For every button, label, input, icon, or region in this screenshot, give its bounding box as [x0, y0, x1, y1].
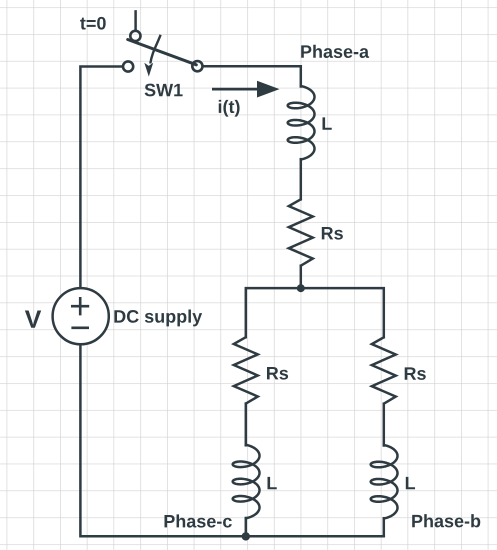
wire right branch resistor to coil	[383, 404, 386, 446]
wire switch to Phase-a corner	[203, 66, 301, 86]
switch SW1 right terminal circle	[192, 61, 202, 71]
wire top bus between branches	[246, 288, 384, 337]
wire left branch resistor to coil	[245, 404, 248, 446]
switch SW1 left terminal circle	[123, 61, 133, 71]
label L (phase-c)	[268, 477, 277, 489]
label V	[25, 311, 41, 328]
current arrow i(t)	[212, 81, 280, 98]
label SW1	[145, 84, 183, 97]
switch SW1 top terminal stub	[134, 11, 137, 30]
label L (phase-a)	[323, 117, 332, 129]
switch SW1 actuation arc arrow	[144, 35, 160, 77]
label t=0	[80, 17, 106, 30]
label Rs (phase-a)	[322, 227, 343, 240]
DC supply plus sign	[71, 297, 89, 315]
DC supply source circle	[53, 288, 109, 344]
switch SW1 blade	[128, 40, 197, 65]
label DC supply	[114, 310, 202, 327]
switch SW1 top terminal circle	[130, 31, 140, 41]
wire right branch coil to bottom bus	[383, 518, 386, 536]
resistor Rs (phase-b branch)	[372, 337, 396, 403]
inductor L (phase-a)	[288, 86, 315, 159]
DC supply minus sign	[71, 326, 89, 329]
resistor Rs (phase-c branch)	[234, 337, 258, 403]
wire resistor Rs to node (phase-a branch)	[300, 266, 303, 288]
label Rs (phase-c)	[267, 367, 288, 380]
inductor L (phase-b branch)	[371, 445, 398, 518]
node junction dot (phase-c bottom)	[242, 532, 250, 540]
node junction dot (star point top)	[297, 284, 305, 292]
wire coil L to resistor Rs (phase-a branch)	[300, 159, 303, 199]
label Rs (phase-b)	[405, 367, 426, 380]
wire left branch coil to bottom bus	[245, 518, 248, 536]
label Phase-b	[412, 514, 480, 527]
wire left rail top (from corner to switch left terminal)	[80, 67, 122, 289]
resistor Rs (phase-a)	[289, 199, 313, 265]
label i(t)	[219, 100, 240, 117]
inductor L (phase-c branch)	[233, 445, 260, 518]
wire left rail bottom (from source to bottom bus)	[80, 344, 383, 536]
label L (phase-b)	[406, 477, 415, 489]
label Phase-a	[301, 45, 369, 58]
label Phase-c	[165, 514, 232, 527]
